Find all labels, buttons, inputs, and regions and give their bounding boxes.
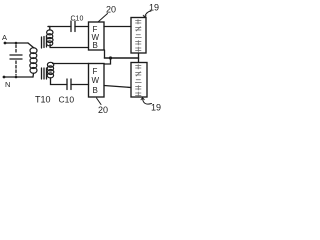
svg-text:F: F bbox=[93, 67, 98, 76]
wire U2 output right bbox=[104, 86, 131, 88]
svg-text:W: W bbox=[92, 76, 100, 85]
lamp box 19 upper bbox=[131, 18, 146, 54]
transformer core lower bbox=[42, 68, 47, 79]
svg-text:20: 20 bbox=[98, 105, 108, 115]
FWB bridge U1 box bbox=[89, 22, 105, 50]
svg-text:N: N bbox=[5, 80, 10, 89]
leader 20 lower bbox=[97, 98, 102, 105]
leader 19 upper bbox=[145, 11, 152, 17]
transformer core upper bbox=[42, 36, 47, 48]
svg-text:T10: T10 bbox=[35, 95, 51, 105]
lamp upper char 3 bbox=[135, 35, 141, 38]
wire primary to N bbox=[32, 73, 35, 77]
lamp lower char 1 bbox=[136, 65, 142, 70]
wire top rail right bbox=[75, 26, 89, 28]
svg-text:20: 20 bbox=[106, 5, 116, 15]
capacitor plate upper bbox=[10, 54, 22, 56]
wire secondary-low bottom lead bbox=[51, 78, 68, 85]
arrowhead 19 lower bbox=[141, 98, 144, 100]
lamp upper char 5 bbox=[136, 47, 142, 52]
capacitor C10 lower right plate bbox=[70, 79, 72, 90]
lamp upper char 4 bbox=[136, 41, 142, 46]
capacitor C10 upper left plate bbox=[70, 21, 72, 32]
svg-text:B: B bbox=[93, 41, 98, 50]
wire top rail left bbox=[48, 26, 71, 28]
wire rail to U2 bbox=[104, 58, 111, 64]
wire lower rail bottom bbox=[71, 84, 89, 86]
svg-text:B: B bbox=[93, 86, 98, 95]
wire N horizontal bbox=[4, 76, 33, 78]
wire A horizontal bbox=[5, 42, 28, 44]
leader 19 lower bbox=[143, 98, 152, 104]
wire secondary-up bottom lead bbox=[50, 44, 88, 48]
junction on A wire bbox=[15, 42, 18, 45]
leader 20 upper bbox=[98, 14, 108, 23]
wire U1 output top bbox=[104, 26, 131, 28]
svg-text:A: A bbox=[2, 33, 7, 42]
node N terminal bbox=[3, 76, 6, 79]
lamp lower char 4 bbox=[136, 86, 142, 91]
lamp upper char 2 bbox=[136, 27, 142, 31]
svg-text:C10: C10 bbox=[71, 16, 84, 23]
wire lower rail top bbox=[53, 63, 89, 65]
lamp lower char 5 bbox=[136, 92, 142, 97]
transformer T10 primary winding bbox=[30, 48, 37, 74]
wire A to primary bbox=[28, 43, 34, 48]
wire U1 output bottom stub bbox=[104, 50, 106, 58]
junction middle rail bbox=[109, 56, 112, 59]
lamp lower char 3 bbox=[135, 80, 141, 83]
arrowhead 19 upper bbox=[143, 15, 146, 17]
lamp box 19 lower bbox=[131, 63, 147, 98]
capacitor C10 upper right plate bbox=[74, 21, 76, 32]
transformer secondary winding upper bbox=[46, 30, 53, 46]
wire dashed lower bbox=[15, 61, 17, 75]
wire secondary-up to top rail bbox=[48, 27, 50, 31]
wire lamp19 link stub bbox=[138, 53, 140, 63]
lamp upper char 1 bbox=[136, 20, 142, 25]
lamp lower char 2 bbox=[136, 72, 142, 76]
capacitor C10 lower left plate bbox=[66, 79, 68, 90]
wire dashed upper bbox=[15, 45, 17, 53]
junction on N wire bbox=[15, 76, 18, 79]
wire middle rail bbox=[105, 57, 139, 59]
FWB bridge U2 box bbox=[89, 64, 105, 98]
capacitor plate lower bbox=[10, 58, 22, 60]
svg-text:19: 19 bbox=[151, 103, 161, 113]
svg-text:C10: C10 bbox=[59, 95, 75, 105]
node A terminal bbox=[4, 42, 7, 45]
transformer secondary winding lower bbox=[47, 62, 54, 78]
